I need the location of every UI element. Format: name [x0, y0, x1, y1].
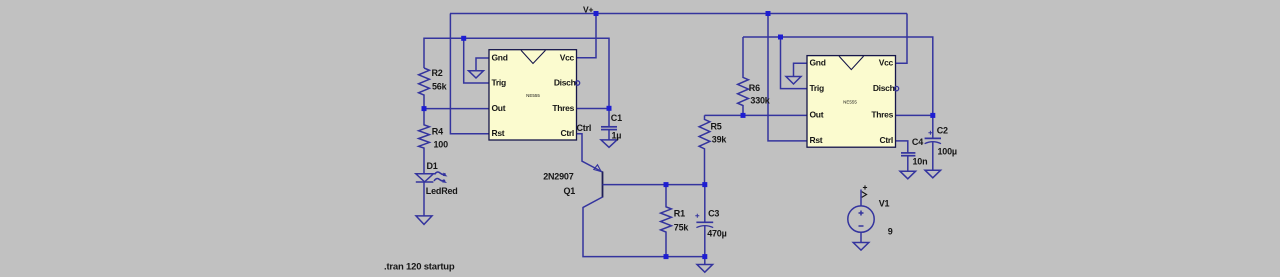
svg-text:NE555: NE555 — [843, 100, 857, 105]
svg-text:V1: V1 — [879, 198, 890, 208]
ground G6 — [900, 171, 916, 179]
svg-text:NE555: NE555 — [526, 93, 540, 98]
svg-text:C3: C3 — [708, 209, 719, 219]
wire Trig/Thres net U1 — [424, 38, 609, 108]
pin circle Disch U1 — [575, 81, 579, 85]
wire Trig2 tap — [781, 37, 808, 89]
svg-text:Thres: Thres — [552, 103, 574, 113]
node Trig2 tap — [778, 35, 783, 40]
wire Vcc1 riser — [577, 14, 597, 58]
node V+/Vcc1 — [594, 11, 599, 16]
svg-text:Out: Out — [492, 103, 506, 113]
svg-text:Vcc: Vcc — [560, 52, 575, 62]
node collector/R1 — [664, 254, 669, 259]
node Thres2/C2 — [930, 113, 935, 118]
capacitor C1 — [608, 108, 610, 126]
svg-text:Disch: Disch — [554, 77, 576, 87]
pin circle Disch U2 — [894, 86, 898, 90]
transistor Q1 — [602, 172, 604, 198]
svg-text:Thres: Thres — [871, 110, 893, 120]
svg-text:Out: Out — [810, 110, 824, 120]
wire Gnd2 — [794, 63, 808, 76]
svg-text:470µ: 470µ — [707, 229, 726, 239]
svg-text:Disch: Disch — [873, 83, 895, 93]
svg-text:C2: C2 — [937, 125, 948, 135]
svg-text:100: 100 — [434, 140, 449, 150]
C3 plus — [695, 214, 699, 218]
ground G4 — [697, 265, 713, 273]
resistor R4 — [419, 109, 430, 174]
wire V+ rail — [450, 13, 907, 15]
resistor R6 — [738, 37, 749, 115]
wire Ctrl2 to C4 — [896, 141, 908, 153]
ground G3 — [416, 216, 432, 225]
svg-text:Rst: Rst — [492, 128, 505, 138]
capacitor C4 — [901, 152, 915, 154]
pin labels U1 — [492, 52, 576, 138]
ground G8 — [853, 243, 869, 251]
ground G7 — [925, 170, 941, 178]
svg-text:D1: D1 — [427, 161, 438, 171]
svg-text:Ctrl: Ctrl — [880, 135, 893, 145]
resistor R1 — [661, 185, 672, 257]
wire Rst2 to V+ — [768, 14, 807, 141]
LED arrows — [435, 172, 446, 174]
C2 plus — [928, 131, 932, 135]
ground G2 — [601, 140, 617, 147]
svg-text:.tran 120 startup: .tran 120 startup — [384, 261, 455, 272]
pin labels U2 — [810, 58, 895, 146]
svg-text:1µ: 1µ — [612, 130, 622, 140]
svg-text:Trig: Trig — [810, 83, 824, 93]
node base/C3/R5 — [702, 182, 707, 187]
svg-text:R1: R1 — [674, 208, 685, 218]
svg-text:C4: C4 — [912, 137, 923, 147]
capacitor C2 — [932, 115, 934, 138]
svg-text:Q1: Q1 — [564, 186, 576, 196]
voltage source V1 — [860, 190, 862, 206]
node Trig1 tap — [461, 36, 466, 41]
svg-text:Rst: Rst — [810, 135, 823, 145]
wire Out2 row — [705, 114, 808, 116]
svg-text:LedRed: LedRed — [426, 186, 458, 196]
svg-text:Ctrl: Ctrl — [577, 123, 592, 133]
op-amp U1 (555 timer) — [489, 50, 580, 140]
resistor R2 — [419, 68, 430, 109]
svg-text:Gnd: Gnd — [492, 52, 508, 62]
svg-text:9: 9 — [888, 226, 893, 236]
wire Gnd1 — [476, 58, 489, 71]
svg-text:330k: 330k — [750, 95, 770, 105]
svg-text:56k: 56k — [432, 82, 448, 92]
svg-text:39k: 39k — [712, 134, 728, 144]
svg-text:R4: R4 — [432, 127, 443, 137]
node base/R1 — [664, 182, 669, 187]
wire Trig1 tap — [464, 38, 489, 83]
node R6/Out2 — [741, 113, 746, 118]
node V+/Rst2 — [766, 11, 771, 16]
ground G1 — [469, 71, 484, 78]
op-amp U2 (555 timer) — [807, 56, 899, 148]
svg-text:R2: R2 — [432, 68, 443, 78]
svg-text:R6: R6 — [749, 83, 760, 93]
svg-text:C1: C1 — [611, 113, 622, 123]
wire Thres1 row — [577, 108, 610, 110]
node R2/R4/Out1 — [422, 106, 427, 111]
node Thres1/C1 — [607, 106, 612, 111]
svg-text:Ctrl: Ctrl — [561, 128, 574, 138]
ground G5 — [786, 77, 801, 85]
wire Q1 collector — [583, 197, 705, 257]
wire Vcc2 riser — [896, 14, 908, 64]
svg-text:2N2907: 2N2907 — [543, 171, 574, 181]
svg-text:V+: V+ — [583, 5, 593, 15]
node collector/C3/gnd — [702, 254, 707, 259]
capacitor C3 — [704, 185, 706, 223]
svg-text:Vcc: Vcc — [879, 58, 894, 68]
resistor R5 — [699, 115, 710, 184]
diode D1 LED — [416, 174, 434, 182]
wire Ctrl1 to Q1 emitter — [577, 134, 603, 172]
svg-text:R5: R5 — [711, 121, 722, 131]
wire Rst1 to V+ — [450, 14, 489, 134]
svg-text:75k: 75k — [674, 222, 690, 232]
svg-text:Gnd: Gnd — [810, 58, 826, 68]
svg-text:10n: 10n — [913, 157, 928, 167]
wire Trig/Thres net U2 — [743, 37, 933, 115]
wire Q1 base row — [603, 184, 705, 186]
wire Out1 row — [424, 108, 489, 110]
net label V+ rotated at V1 — [862, 185, 867, 197]
wire Thres2 row — [896, 114, 933, 116]
svg-text:Trig: Trig — [492, 77, 506, 87]
svg-text:100µ: 100µ — [938, 147, 957, 157]
